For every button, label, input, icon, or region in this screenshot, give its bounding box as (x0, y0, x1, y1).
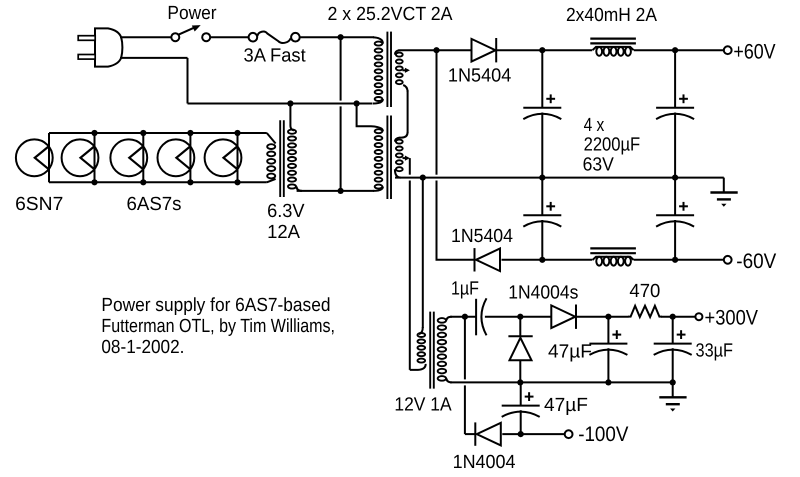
wire secondary series link (395, 90, 408, 142)
wire plug to switch (120, 36, 171, 38)
tube V2 6AS7 (62, 130, 99, 186)
svg-text:4 x: 4 x (584, 115, 605, 136)
T2 primary winding (288, 104, 302, 191)
capacitor C2 (656, 50, 694, 177)
wire to -60V (634, 259, 724, 261)
node C6 top (670, 314, 676, 320)
svg-text:-100V: -100V (578, 423, 628, 446)
T2 secondary 6.3V winding (267, 144, 275, 178)
T1 upper tap arrow (403, 68, 410, 73)
tube V1 6SN7 (16, 139, 53, 176)
wire fuse to T1 primary (300, 36, 374, 38)
svg-text:Power: Power (167, 3, 217, 24)
svg-text:1µF: 1µF (451, 278, 479, 299)
label 2x40mH 2A (566, 5, 657, 26)
svg-text:6.3V: 6.3V (267, 201, 305, 222)
svg-text:+300V: +300V (705, 307, 759, 330)
svg-text:-60V: -60V (736, 250, 776, 273)
wire sec top lead (399, 49, 472, 51)
switch S1 (171, 25, 210, 41)
node gnd C2 (672, 175, 678, 181)
svg-text:+60V: +60V (733, 41, 775, 64)
label Power (167, 3, 217, 24)
label 33uF (696, 341, 734, 362)
node -100V feed (462, 314, 468, 320)
svg-text:08-1-2002.: 08-1-2002. (101, 337, 184, 358)
wire hot vertical (340, 37, 342, 191)
svg-text:Power supply for 6AS7-based: Power supply for 6AS7-based (101, 295, 330, 316)
capacitor C3 (523, 178, 561, 260)
svg-text:470: 470 (629, 281, 660, 302)
mid rail (450, 381, 673, 383)
node hot junction (338, 34, 344, 40)
label 47uF second (544, 395, 588, 416)
node neutral lower primary (354, 100, 360, 106)
svg-text:1N4004: 1N4004 (453, 452, 516, 473)
svg-text:12V 1A: 12V 1A (394, 394, 451, 415)
svg-text:6SN7: 6SN7 (15, 194, 63, 215)
node C3 bottom (539, 257, 545, 263)
T1 core (387, 32, 391, 199)
node C6 bottom (670, 379, 676, 385)
wire T3 top rail (450, 316, 476, 318)
T3 core (430, 312, 434, 389)
choke L1 (590, 39, 636, 56)
label 1uF (451, 278, 479, 299)
label 4 x 2200uF 63V (583, 115, 641, 176)
label -100V (578, 423, 628, 446)
wire switch to fuse (210, 36, 248, 38)
label 47uF first (548, 342, 592, 363)
tube bus (49, 133, 276, 182)
svg-text:Futterman OTL, by Tim Williams: Futterman OTL, by Tim Williams, (101, 316, 335, 337)
label 470 (629, 281, 660, 302)
node gnd T3 feed (420, 175, 426, 181)
label 2 x 25.2VCT 2A (328, 4, 453, 25)
node C4 bottom (672, 257, 678, 263)
wire to D3 (520, 316, 551, 318)
tube V5 6AS7 (205, 130, 242, 186)
svg-text:2x40mH 2A: 2x40mH 2A (566, 5, 657, 26)
terminal -60V (724, 256, 732, 264)
terminal -100V (565, 430, 573, 438)
svg-text:12A: 12A (267, 222, 300, 243)
node C5 bottom (605, 379, 611, 385)
diode D4 1N4004 clamp (508, 317, 532, 383)
node C2 top (672, 47, 678, 53)
label 1N5404 bottom (451, 226, 513, 247)
node D4 bottom (517, 379, 523, 385)
T2 core (280, 120, 284, 197)
wire lower primary bottom (297, 190, 374, 192)
diode D1 1N5404 (472, 38, 497, 62)
diode D2 1N5404 (475, 248, 501, 271)
svg-text:63V: 63V (583, 155, 614, 176)
tube V4 6AS7 (158, 130, 195, 186)
label 12V 1A (394, 394, 451, 415)
node doubler (517, 314, 523, 320)
ground rail (395, 177, 724, 179)
AC plug P1 (78, 28, 122, 66)
svg-text:33µF: 33µF (696, 341, 734, 362)
node hot bottom (338, 188, 344, 194)
capacitor C5 47uF (589, 317, 627, 383)
T1 primary lower winding (373, 129, 383, 191)
T1 secondary lower winding (395, 140, 403, 178)
wire AC to D2 (437, 50, 475, 260)
label -60V (736, 250, 776, 273)
label 6SN7 (15, 194, 63, 215)
wire gnd to T3 (419, 178, 423, 335)
wire tap to T3 (410, 158, 426, 370)
diode D5 1N4004 (475, 422, 501, 445)
wire D3 out (577, 316, 629, 318)
svg-text:1N5404: 1N5404 (448, 66, 512, 87)
wire neutral rail (188, 103, 373, 105)
fuse F1 (249, 32, 300, 43)
svg-text:2 x 25.2VCT 2A: 2 x 25.2VCT 2A (328, 4, 453, 25)
wire plug neutral (120, 58, 188, 104)
ground symbol low (659, 382, 686, 411)
wire to +60V (634, 49, 724, 51)
T3 120V winding (438, 317, 452, 383)
label 6.3V 12A (267, 201, 305, 243)
choke L2 (590, 248, 636, 265)
label +300V (705, 307, 759, 330)
T1 secondary upper winding (395, 50, 408, 92)
wire to +300V (661, 316, 695, 318)
ground symbol main (710, 178, 737, 207)
wire D2 out (502, 259, 593, 261)
svg-text:47µF: 47µF (548, 342, 592, 363)
svg-text:1N5404: 1N5404 (451, 226, 513, 247)
capacitor C4 (656, 178, 694, 260)
node neutral 6.3V (287, 100, 293, 106)
title text (101, 295, 335, 358)
resistor R1 470 (628, 306, 662, 317)
wire D1 out (497, 49, 592, 51)
node gnd C1 (539, 175, 545, 181)
diode D3 1N4004 (551, 305, 576, 329)
terminal +300V (695, 313, 702, 320)
svg-text:47µF: 47µF (544, 395, 588, 416)
label 1N4004 (453, 452, 516, 473)
label 6AS7s (127, 194, 182, 215)
svg-text:6AS7s: 6AS7s (127, 194, 182, 215)
capacitor C7 47uF (502, 382, 540, 434)
node C5 top (605, 314, 611, 320)
tube V3 6AS7 (110, 130, 147, 186)
node C1 top (539, 47, 545, 53)
svg-text:1N4004s: 1N4004s (508, 282, 578, 303)
node AC top (433, 47, 439, 53)
T3 12V winding (418, 333, 426, 363)
label +60V (733, 41, 775, 64)
label 1N5404 top (448, 66, 512, 87)
capacitor C8 1uF (476, 298, 520, 335)
capacitor C1 (523, 50, 561, 177)
T1 primary upper winding (373, 37, 383, 103)
label 3A Fast (244, 46, 307, 67)
wire -100V feed (465, 317, 475, 434)
capacitor C6 33uF (654, 317, 692, 383)
node C7 bottom (518, 431, 524, 437)
wire neutral jog (357, 104, 383, 132)
svg-text:3A Fast: 3A Fast (244, 46, 307, 67)
label 1N4004s (508, 282, 578, 303)
wire D5 out (502, 433, 564, 435)
svg-text:2200µF: 2200µF (584, 135, 641, 156)
terminal +60V (724, 46, 732, 54)
T1 lower tap arrow (403, 156, 410, 161)
